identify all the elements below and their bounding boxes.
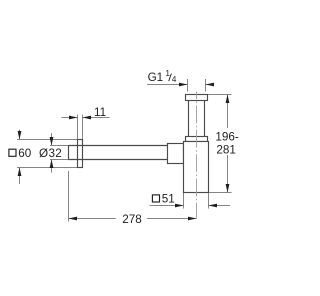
svg-text:G1: G1 <box>148 71 164 84</box>
svg-text:278: 278 <box>122 213 142 226</box>
svg-text:281: 281 <box>216 143 236 156</box>
svg-text:196-: 196- <box>215 130 239 143</box>
svg-text:4: 4 <box>172 74 177 84</box>
svg-text:51: 51 <box>162 192 175 205</box>
svg-text:60: 60 <box>18 147 32 160</box>
svg-text:Ø32: Ø32 <box>39 147 62 160</box>
svg-text:1: 1 <box>165 68 170 78</box>
svg-text:11: 11 <box>94 106 106 119</box>
